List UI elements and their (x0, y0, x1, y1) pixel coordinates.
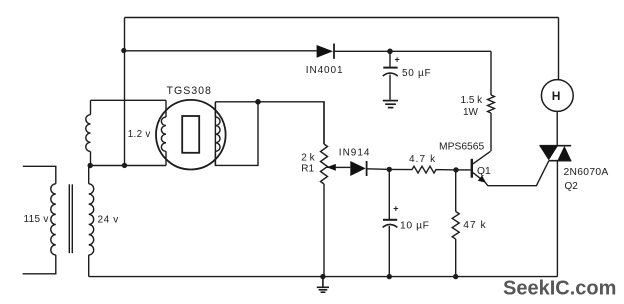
svg-text:115 v: 115 v (24, 214, 49, 225)
capacitor C 10uF (383, 169, 398, 276)
svg-text:+: + (395, 55, 400, 65)
node junction dot 1.2v winding bottom (88, 163, 93, 168)
wire triac MT1 down to bottom rail (556, 161, 558, 277)
wire 1.2v bottom to sensor heater (90, 165, 166, 167)
svg-text:IN914: IN914 (339, 148, 371, 159)
svg-text:TGS308: TGS308 (167, 85, 212, 97)
wire left vertical from top rail (124, 18, 126, 166)
wire 1.2v top to sensor heater (91, 99, 167, 101)
node junction dot left vertical on bottom wire (122, 163, 127, 168)
wire bottom rail (89, 276, 558, 278)
capacitor C 50uF (383, 51, 398, 100)
transformer T1 primary winding 115v (23, 166, 56, 273)
wire 1.5k to Q1 collector (490, 113, 492, 151)
node junction dot base/47k (453, 167, 458, 172)
node junction dot sensor output (255, 99, 261, 105)
wire DC rail to diode anode (124, 50, 317, 52)
svg-text:10 µF: 10 µF (400, 220, 430, 231)
svg-text:Q1: Q1 (477, 166, 491, 177)
svg-text:1W: 1W (463, 107, 479, 118)
wire Q1 base from node (456, 169, 471, 171)
node junction dot diode/cap/4.7k (387, 167, 392, 172)
sensor output loop rectangle (215, 102, 258, 166)
node junction dot R1 bottom (320, 274, 325, 279)
node junction dot 50uF top (387, 49, 393, 55)
svg-text:4.7 k: 4.7 k (409, 154, 436, 165)
wire top rail down to heater lamp (558, 18, 560, 80)
triac Q2 2N6070A (539, 146, 571, 161)
potentiometer R1 2k (321, 102, 328, 277)
transformer core (69, 184, 72, 253)
wire diode cathode to cap node (334, 50, 390, 52)
resistor 47k (452, 170, 459, 277)
sensor left heater coil (161, 100, 166, 165)
ground below 50uF (383, 101, 398, 108)
wire cap node to 1.5k corner (390, 50, 491, 52)
winding 1.2v heater tap (86, 100, 91, 165)
node junction dot 10uF bottom (387, 274, 392, 279)
svg-text:1.2 v: 1.2 v (128, 129, 151, 140)
wire triac gate (488, 161, 549, 186)
wire down to 1.5k resistor (490, 51, 492, 95)
wire sensor output to R1 top (258, 102, 324, 144)
diode IN914 (350, 161, 389, 176)
transformer secondary winding 24v (89, 166, 94, 277)
svg-text:24 v: 24 v (98, 215, 119, 226)
svg-text:R1: R1 (301, 164, 314, 175)
svg-text:SeekIC.com: SeekIC.com (503, 277, 616, 299)
wire top rail (125, 17, 559, 19)
svg-text:MPS6565: MPS6565 (439, 141, 484, 152)
svg-text:+: + (393, 204, 398, 214)
svg-text:IN4001: IN4001 (306, 65, 344, 76)
wire lamp to triac MT2 (556, 112, 558, 146)
svg-text:50 µF: 50 µF (402, 68, 431, 79)
svg-text:2 k: 2 k (301, 153, 315, 164)
svg-text:H: H (552, 89, 561, 103)
node junction dot left vertical / DC rail (121, 48, 126, 53)
sensor TGS308 body circle (156, 100, 226, 170)
sensor right coil (215, 102, 220, 166)
svg-text:47 k: 47 k (463, 220, 486, 231)
sensor element rectangle (182, 116, 199, 153)
svg-text:Q2: Q2 (565, 181, 579, 192)
resistor 4.7k (389, 166, 456, 173)
svg-text:1.5 k: 1.5 k (461, 95, 484, 106)
lamp H (541, 80, 573, 112)
resistor 1.5k 1W (488, 95, 495, 113)
ground below R1 (317, 277, 329, 293)
node junction dot 47k bottom (453, 274, 458, 279)
diode IN4001 (317, 44, 334, 59)
wiper arrow of R1 (327, 164, 351, 171)
svg-text:2N6070A: 2N6070A (564, 167, 609, 178)
transistor Q1 MPS6565 (472, 151, 491, 185)
